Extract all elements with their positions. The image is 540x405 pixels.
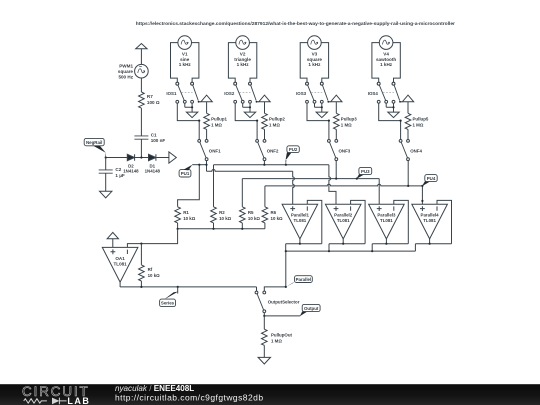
svg-text:LAB: LAB [67,396,90,405]
svg-text:Parallel2: Parallel2 [334,212,353,217]
junction dot Rf top [140,243,142,245]
switch IOS2 with pullup and ONF2 [234,82,270,160]
svg-text:1 MΩ: 1 MΩ [413,123,424,128]
switch IOS1 with pullup and ONF1 [176,82,212,160]
svg-text:10 kΩ: 10 kΩ [271,216,284,221]
svg-text:V1: V1 [182,51,188,56]
svg-text:Pullup2: Pullup2 [269,116,285,121]
ground [100,191,112,198]
switch IOS4 with pullup and ONF4 [377,82,413,160]
svg-text:Pullup5: Pullup5 [413,116,429,121]
wire bus down to OA1 inverting input [127,229,177,248]
wire parallel output bus [286,250,416,252]
wire PU3 drop to R5 [241,179,243,207]
svg-text:sine: sine [180,57,190,62]
wire net PU4 horizontal with hops [265,184,423,186]
wire PU2 drop to R2 [213,165,215,207]
ground below PullupOut [258,357,270,364]
wire net PU3 horizontal [242,178,379,180]
resistor R5 [240,207,246,223]
wire PU1 drop to R1 [178,165,200,207]
svg-text:R1: R1 [183,210,189,215]
op-amp Parallel1 [282,200,322,251]
svg-text:Rf: Rf [148,267,153,272]
svg-text:NegRail: NegRail [86,140,102,145]
wire ONF1 stub [206,161,208,165]
junction dots summing bus [177,228,244,230]
svg-text:1 kHz: 1 kHz [237,62,250,67]
svg-text:triangle: triangle [234,57,251,62]
svg-text:OA1: OA1 [115,256,125,261]
svg-text:TL081: TL081 [113,261,127,266]
flag PU2 [285,146,299,165]
svg-text:IOS3: IOS3 [296,91,307,96]
svg-text:1 MΩ: 1 MΩ [341,123,352,128]
voltage source V4 box [372,36,400,85]
svg-text:ONF1: ONF1 [209,148,221,153]
diode D2 [127,154,134,160]
svg-text:1 µF: 1 µF [115,173,124,178]
svg-text:R7: R7 [147,94,153,99]
svg-text:10 kΩ: 10 kΩ [248,216,261,221]
svg-text:Parallel: Parallel [296,277,312,282]
svg-text:Parallel1: Parallel1 [291,212,310,217]
svg-text:TL081: TL081 [380,218,393,223]
svg-text:C1: C1 [151,132,157,137]
wire ONF4 stub [407,161,409,186]
svg-text:V3: V3 [312,51,318,56]
wire PU3 to opamp Parallel3 [378,179,380,205]
svg-text:IOS1: IOS1 [166,91,177,96]
svg-text:1N4148: 1N4148 [123,169,139,174]
svg-text:1 MΩ: 1 MΩ [211,123,222,128]
svg-text:TL081: TL081 [294,218,307,223]
wire Parallel net to selector [264,287,286,291]
resistor PullupOut [262,329,268,345]
svg-text:1 MΩ: 1 MΩ [269,123,280,128]
wire [156,157,169,159]
flag Series [160,287,179,307]
svg-text:V2: V2 [240,51,246,56]
capacitor C2 [99,170,113,173]
wire PullupOut bottom lead [263,345,265,357]
wire summing bus [178,228,265,230]
svg-text:IOS4: IOS4 [368,91,379,96]
wire [135,157,149,159]
wire PU1 to opamp Parallel1 with hops [207,165,295,205]
svg-text:Pullup3: Pullup3 [341,116,357,121]
wire PU2 to opamp Parallel2 with hop [329,165,336,205]
svg-text:R6: R6 [271,210,277,215]
wire PU4 to opamp Parallel4 [421,186,423,204]
logo diode [52,398,59,405]
power flag above PWM1 [136,44,147,49]
resistor Rf [139,265,145,281]
op-amp Parallel2 [325,200,365,251]
svg-text:ONF2: ONF2 [267,148,279,153]
wire parallel bus drop to selector [285,251,287,287]
wire net PU2 horizontal [214,164,329,166]
svg-text:1 kHz: 1 kHz [308,62,321,67]
wire [140,139,142,157]
wire [140,78,142,92]
svg-text:1N4148: 1N4148 [145,169,161,174]
svg-text:10 kΩ: 10 kΩ [183,216,196,221]
svg-text:PullupOut: PullupOut [271,333,293,338]
op-amp Parallel3 [369,200,409,251]
logo resistor zigzag [24,399,47,403]
svg-text:IOS2: IOS2 [224,91,235,96]
flag PU3 [356,167,371,179]
svg-text:10 kΩ: 10 kΩ [148,273,161,278]
resistor R6 [262,207,268,223]
svg-text:PWM1: PWM1 [119,64,133,69]
resistor R7 [139,92,145,108]
wire Rf bottom lead [140,281,142,287]
wire selector output stub [263,313,265,316]
wire PU4 drop to R6 [264,186,266,207]
flag Output [300,304,320,316]
svg-text:TL081: TL081 [337,218,350,223]
flag Parallel [286,276,313,288]
svg-text:R5: R5 [248,210,254,215]
svg-text:1 kHz: 1 kHz [380,62,393,67]
svg-text:PU4: PU4 [427,176,436,181]
wire ONF3 stub [335,161,337,179]
power flag above OA1 [107,232,118,238]
wire [140,108,142,136]
capacitor C1 [134,136,148,139]
svg-text:10 kΩ: 10 kΩ [219,216,232,221]
voltage source V1 box [171,36,199,85]
svg-text:OutputSelector: OutputSelector [268,300,300,305]
svg-text:http://circuitlab.com/c9gfgtwg: http://circuitlab.com/c9gfgtwgs82db [115,393,264,403]
svg-text:Pullup1: Pullup1 [211,116,227,121]
wire ONF2 stub [263,161,265,165]
node dot NegRail [105,156,107,158]
wire Series net [120,287,256,291]
flag PU4 [422,175,437,187]
wire Output net [264,315,300,317]
diode D1 [149,154,156,160]
svg-text:Parallel3: Parallel3 [377,212,396,217]
svg-text:PU1: PU1 [181,171,190,176]
svg-text:Series: Series [161,301,175,306]
svg-text:1 kHz: 1 kHz [179,62,192,67]
switch OutputSelector lever [257,294,264,310]
svg-text:Parallel4: Parallel4 [421,212,440,217]
wire net PU1 horizontal [192,164,206,166]
node dot C1 junction [140,156,142,158]
svg-text:100 nF: 100 nF [151,138,166,143]
svg-text:ONF4: ONF4 [410,148,422,153]
wire OA1 noninverting stub [112,239,114,248]
junction dots Series net [140,286,179,288]
wire resistor bottoms to summing bus [178,223,265,229]
resistor R1 [175,207,181,223]
junction dots middle buses [198,164,423,202]
wire PullupOut top lead [263,316,265,329]
flag NegRail [84,138,106,157]
op-amp Parallel4 [412,200,452,251]
svg-text:PU2: PU2 [289,147,298,152]
junction dots parallel bus [285,250,374,252]
wire OA1 output stub [119,282,121,287]
svg-text:ONF3: ONF3 [339,148,351,153]
svg-text:100 Ω: 100 Ω [147,100,160,105]
footer bar [0,384,540,405]
svg-text:V4: V4 [383,51,389,56]
svg-text:square: square [118,69,134,74]
junction dot Parallel net [285,286,287,288]
wire [105,158,107,170]
svg-text:https://electronics.stackexcha: https://electronics.stackexchange.com/qu… [136,21,455,27]
net arrow flag right [169,152,176,163]
flag PU1 [179,165,192,177]
svg-text:C2: C2 [115,167,121,172]
svg-text:sawtooth: sawtooth [376,57,396,62]
wire [140,49,142,65]
op-amp OA1 [102,247,138,282]
svg-text:500 Hz: 500 Hz [118,74,133,79]
voltage source V2 box [228,36,256,85]
voltage source PWM1 [135,64,149,78]
svg-text:1 MΩ: 1 MΩ [271,339,282,344]
svg-text:R2: R2 [219,210,225,215]
switch IOS3 with pullup and ONF3 [306,82,342,160]
wire [105,173,107,191]
svg-text:PU3: PU3 [361,169,370,174]
resistor R2 [211,207,217,223]
svg-text:square: square [307,57,323,62]
wire NegRail node to diodes [106,157,128,159]
svg-text:Output: Output [304,306,319,311]
svg-text:TL081: TL081 [423,218,436,223]
junction dot Output net [263,315,265,317]
wire Rf top lead [140,244,142,265]
voltage source V3 box [300,36,328,85]
